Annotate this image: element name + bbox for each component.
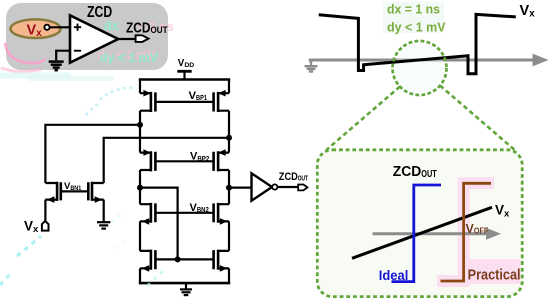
svg-text:dx = 1 ns: dx = 1 ns — [387, 1, 440, 16]
wire: inverter out — [278, 186, 299, 188]
time axis (grey) — [309, 59, 536, 62]
transistor M9 (NMOS left bias) — [45, 182, 88, 203]
ideal step (blue) — [392, 185, 442, 282]
ground (comparator) — [49, 62, 64, 71]
wire: comparator - to ground — [56, 51, 70, 61]
svg-text:VDD: VDD — [178, 58, 194, 69]
wire: bias right source to ground — [103, 200, 105, 222]
wire: comparator output — [118, 38, 136, 40]
zoom circle tint — [395, 44, 444, 93]
svg-text:VBP2: VBP2 — [190, 151, 209, 163]
input ellipse Vx — [11, 19, 61, 38]
svg-text:dx: dx — [104, 19, 119, 33]
transistor M4 (PMOS right, VBP2) — [214, 149, 229, 171]
bottom rail wire — [139, 282, 230, 285]
ZCD block background box — [6, 3, 168, 70]
svg-text:Vx: Vx — [520, 3, 536, 20]
svg-text:dy < 1 mV: dy < 1 mV — [387, 19, 446, 34]
ground (bias) — [97, 222, 110, 228]
zoom circle (dashed) — [393, 41, 447, 95]
bottom gate wire — [155, 258, 213, 260]
Vx input port — [42, 221, 49, 231]
input port circle — [44, 25, 49, 30]
transistor M1 (PMOS left, VBP1) — [140, 90, 214, 112]
node dot left — [137, 185, 143, 191]
plus sign — [74, 24, 81, 31]
transistor M3 (PMOS left, VBP2) — [140, 149, 214, 171]
transistor M7 (NMOS left, bottom) — [140, 250, 155, 272]
output node wire to inverter — [229, 187, 252, 189]
VDD supply bar — [177, 70, 191, 73]
ghost tint behind annotations — [383, 2, 444, 34]
svg-text:ZCD: ZCD — [87, 4, 112, 21]
ground (axis reference, grey) — [305, 60, 318, 72]
svg-text:VBP1: VBP1 — [189, 90, 208, 102]
left column wire segments — [139, 80, 141, 284]
ground (main) — [185, 283, 187, 289]
Vx transfer line — [352, 207, 492, 258]
ghost cyan band — [0, 73, 70, 79]
wire from bias to left column node — [45, 125, 140, 183]
transistor M5 (NMOS left, VBN2) — [140, 203, 214, 225]
Vx waveform — [319, 14, 516, 73]
ghost pink swoosh below box — [1, 68, 41, 72]
transistor M6 (NMOS right, VBN2) — [214, 203, 229, 225]
pink halo behind Practical label — [461, 259, 521, 284]
transistor M2 (PMOS right, VBP1) — [214, 90, 229, 112]
zoom funnel right — [440, 86, 515, 150]
port ZCDOUT (schematic) — [298, 185, 307, 191]
node dot — [226, 135, 232, 141]
svg-text:VBN1: VBN1 — [64, 181, 82, 192]
node dot gate — [175, 256, 181, 262]
svg-text:VBN2: VBN2 — [190, 202, 209, 214]
wire: port to comparator + — [50, 26, 70, 28]
ghost cyan dotted arc — [100, 88, 135, 100]
svg-text:Practical: Practical — [468, 267, 521, 283]
wire: bias left source to Vx port — [44, 200, 46, 221]
node dot right — [226, 185, 232, 191]
wire from bias to right column node — [104, 138, 229, 183]
svg-text:ZCDOUT: ZCDOUT — [279, 171, 309, 183]
transistor M8 (NMOS right, bottom) — [214, 250, 229, 272]
op-amp U1 (comparator) — [70, 15, 118, 62]
transistor M10 (NMOS right bias) — [88, 182, 103, 203]
inverter U2 — [252, 173, 273, 200]
pink halo behind practical curve — [437, 183, 494, 281]
minus sign — [74, 50, 81, 52]
zoom funnel left — [327, 87, 401, 150]
svg-text:Vx: Vx — [24, 218, 39, 235]
node dot — [137, 122, 143, 128]
port ZCDOUT (block) — [136, 35, 149, 42]
ghost cyan dashes bottom-left — [17, 236, 41, 256]
right column wire segments — [228, 80, 230, 284]
dashed detail box — [317, 150, 522, 297]
practical step (brown) — [441, 183, 492, 281]
ghost pink arc under ellipse — [5, 43, 45, 63]
svg-text:Ideal: Ideal — [379, 267, 409, 283]
node wire to bottom gates — [140, 188, 178, 260]
voltage axis (grey) — [373, 232, 492, 235]
inverter bubble — [272, 184, 277, 189]
svg-text:dy < 1 mV: dy < 1 mV — [100, 51, 159, 65]
top rail wire — [139, 78, 230, 81]
